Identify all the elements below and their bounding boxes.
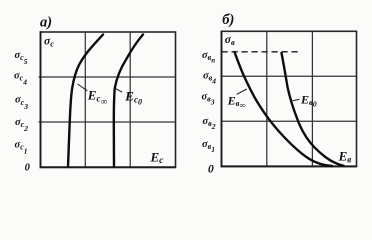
svg-text:0: 0 bbox=[208, 163, 214, 175]
svg-text:σв4: σв4 bbox=[203, 70, 216, 85]
svg-text:Eв: Eв bbox=[338, 148, 352, 164]
svg-text:Eв∞: Eв∞ bbox=[227, 93, 246, 110]
panel a y-axis bbox=[40, 31, 42, 168]
leader line to Ec-infinity label bbox=[78, 84, 88, 91]
curve Ec-infinity (panel a left curve) bbox=[68, 35, 103, 168]
panel a vertical grid line 2 bbox=[129, 32, 131, 167]
leader line to Ev0 label bbox=[293, 99, 300, 101]
curve Ev0 (panel b right curve) bbox=[282, 53, 344, 166]
dashed limit line sigma-vp bbox=[222, 51, 302, 53]
svg-text:σвп: σвп bbox=[202, 50, 215, 65]
panel a horizontal grid line 2 bbox=[39, 121, 176, 123]
panel b vertical grid line 2 bbox=[311, 31, 313, 166]
panel b y-axis bbox=[221, 31, 223, 168]
panel a vertical grid line 1 bbox=[84, 32, 86, 167]
svg-text:Eв0: Eв0 bbox=[300, 92, 317, 108]
svg-text:σс5: σс5 bbox=[15, 50, 28, 66]
svg-text:σс4: σс4 bbox=[14, 70, 27, 86]
svg-text:0: 0 bbox=[25, 162, 31, 173]
svg-text:а): а) bbox=[40, 14, 52, 30]
svg-text:σв1: σв1 bbox=[202, 139, 215, 154]
panel b vertical grid line 1 bbox=[266, 31, 268, 166]
svg-text:σв2: σв2 bbox=[203, 116, 216, 131]
svg-text:Eс∞: Eс∞ bbox=[87, 88, 108, 108]
leader line to Ev-infinity label bbox=[237, 89, 247, 94]
curve Ev-infinity (panel b left curve) bbox=[235, 52, 333, 166]
svg-text:б): б) bbox=[222, 12, 234, 28]
svg-text:σс: σс bbox=[44, 36, 54, 49]
panel b x-axis bbox=[221, 165, 358, 167]
svg-text:σв: σв bbox=[225, 34, 235, 47]
svg-text:σс3: σс3 bbox=[15, 95, 28, 111]
leader line to Ec0 label bbox=[116, 89, 123, 93]
panel a grid border bbox=[41, 32, 176, 167]
panel a x-axis bbox=[40, 166, 177, 168]
svg-text:σс1: σс1 bbox=[15, 139, 28, 155]
svg-text:σв3: σв3 bbox=[202, 92, 215, 107]
panel b horizontal grid line 1 bbox=[222, 75, 357, 77]
svg-text:Eс0: Eс0 bbox=[124, 89, 142, 107]
curve Ec0 (panel a right curve) bbox=[114, 35, 143, 168]
svg-text:Eс: Eс bbox=[150, 149, 165, 166]
panel b horizontal grid line 2 bbox=[222, 120, 357, 122]
panel b grid border bbox=[222, 31, 357, 166]
panel a horizontal grid line 1 bbox=[39, 76, 176, 78]
svg-text:σс2: σс2 bbox=[15, 117, 28, 133]
